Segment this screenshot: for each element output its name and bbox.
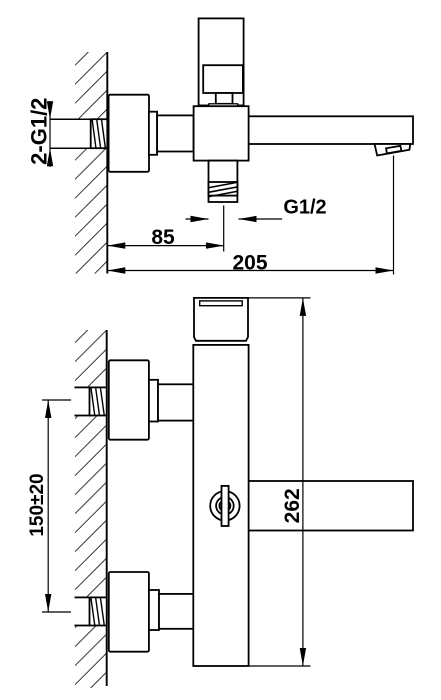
- svg-text:85: 85: [151, 226, 175, 249]
- svg-text:262: 262: [281, 488, 304, 523]
- svg-text:150±20: 150±20: [27, 473, 48, 536]
- svg-text:2-G1/2: 2-G1/2: [27, 98, 52, 165]
- svg-text:205: 205: [232, 251, 267, 274]
- svg-text:G1/2: G1/2: [283, 197, 326, 219]
